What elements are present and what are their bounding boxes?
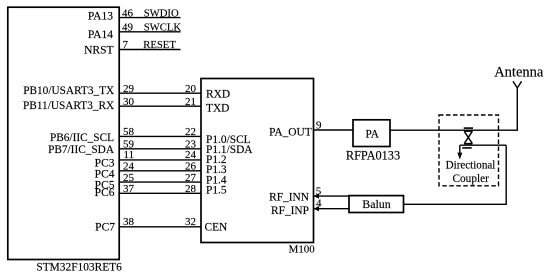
svg-text:PA14: PA14 <box>88 29 113 41</box>
pin 5 input arrowhead <box>314 193 319 198</box>
svg-text:24: 24 <box>123 161 135 173</box>
svg-text:Antenna: Antenna <box>494 65 544 81</box>
wire IIC_SDA net: MCU pin 59 to M100 pin 23 <box>119 148 201 150</box>
wire coupled line of directional coupler <box>460 144 506 146</box>
wire PC5 net: MCU pin 25 to M100 pin 27 <box>119 181 201 183</box>
wire USART3_RX net: MCU pin 30 to M100 pin 21 <box>119 105 201 107</box>
svg-text:Balun: Balun <box>362 197 390 211</box>
wire NRST to RESET stub <box>119 49 180 51</box>
svg-text:58: 58 <box>123 126 135 138</box>
transformer T1 Balun box <box>349 196 404 213</box>
svg-text:PC6: PC6 <box>95 187 115 199</box>
svg-text:PB10/USART3_TX: PB10/USART3_TX <box>23 85 114 97</box>
svg-text:P1.5: P1.5 <box>206 184 227 196</box>
wire PC3 net: MCU pin 11 to M100 pin 24 <box>119 159 201 161</box>
svg-text:PA_OUT: PA_OUT <box>269 126 312 138</box>
RF module U2 M100 box <box>201 79 314 243</box>
pin 4 input arrowhead <box>314 206 319 211</box>
svg-text:PB11/USART3_RX: PB11/USART3_RX <box>23 100 114 112</box>
svg-text:7: 7 <box>123 39 129 51</box>
svg-text:RESET: RESET <box>143 39 176 51</box>
wire PA output to antenna node <box>390 129 518 131</box>
svg-text:PA: PA <box>365 128 379 140</box>
svg-text:26: 26 <box>185 161 197 173</box>
svg-text:5: 5 <box>316 185 322 197</box>
svg-text:37: 37 <box>123 183 135 195</box>
coupler tick bar above main line <box>464 127 473 129</box>
svg-text:PC7: PC7 <box>95 222 115 234</box>
svg-text:11: 11 <box>124 149 135 161</box>
svg-text:PB6/IIC_SCL: PB6/IIC_SCL <box>50 132 114 144</box>
svg-text:Coupler: Coupler <box>452 173 489 185</box>
directional coupler DC1 dashed box <box>439 115 499 186</box>
svg-text:29: 29 <box>123 83 135 95</box>
amplifier U3 PA box <box>353 120 390 147</box>
svg-text:NRST: NRST <box>84 45 113 57</box>
svg-text:SWDIO: SWDIO <box>144 7 179 19</box>
svg-text:PB7/IIC_SDA: PB7/IIC_SDA <box>48 144 115 156</box>
antenna ANT1 feed wire <box>516 88 518 131</box>
wire Balun output to coupler riser <box>404 145 507 204</box>
svg-text:SWCLK: SWCLK <box>144 22 182 34</box>
svg-text:TXD: TXD <box>206 103 229 115</box>
svg-text:32: 32 <box>185 216 196 228</box>
wire IIC_SCL net: MCU pin 58 to M100 pin 22 <box>119 135 201 137</box>
svg-text:Directional: Directional <box>446 159 496 171</box>
antenna ANT1 symbol arms <box>513 81 522 88</box>
coupled port stub wire <box>459 145 461 153</box>
svg-text:46: 46 <box>122 7 134 19</box>
coupler tick bar below coupled line <box>462 147 472 149</box>
wire RF_INP: M100 pin 4 to Balun <box>314 208 350 210</box>
wire PA14 to SWCLK stub <box>119 31 180 33</box>
svg-text:24: 24 <box>185 149 197 161</box>
svg-text:RF_INN: RF_INN <box>269 192 309 204</box>
svg-text:30: 30 <box>123 96 135 108</box>
svg-text:CEN: CEN <box>205 222 228 234</box>
wire PA13 to SWDIO stub <box>119 17 180 19</box>
svg-text:PA13: PA13 <box>88 11 113 23</box>
svg-text:49: 49 <box>122 22 134 34</box>
svg-text:M100: M100 <box>289 244 316 256</box>
svg-text:28: 28 <box>185 183 197 195</box>
wire PC4 net: MCU pin 24 to M100 pin 26 <box>119 170 201 172</box>
wire PA_OUT: M100 pin 9 to PA input <box>314 129 354 131</box>
svg-text:9: 9 <box>316 119 322 131</box>
MCU U1 STM32F103RET6 box <box>8 7 119 259</box>
svg-text:STM32F103RET6: STM32F103RET6 <box>36 262 122 274</box>
svg-text:38: 38 <box>123 216 135 228</box>
wire CEN net: MCU pin 38 to M100 pin 32 <box>119 226 201 228</box>
coupler X symbol <box>464 131 472 143</box>
wire USART3_TX net: MCU pin 29 to M100 pin 20 <box>119 92 201 94</box>
svg-text:RF_INP: RF_INP <box>271 205 309 217</box>
svg-text:RXD: RXD <box>206 89 230 101</box>
svg-text:22: 22 <box>185 126 196 138</box>
svg-text:4: 4 <box>316 198 322 210</box>
wire PC6 net: MCU pin 37 to M100 pin 28 <box>119 192 201 194</box>
coupled port arrowhead <box>457 153 462 160</box>
svg-text:RFPA0133: RFPA0133 <box>346 149 400 163</box>
svg-text:20: 20 <box>185 83 197 95</box>
svg-text:21: 21 <box>185 96 196 108</box>
wire RF_INN: M100 pin 5 to Balun <box>314 195 350 197</box>
